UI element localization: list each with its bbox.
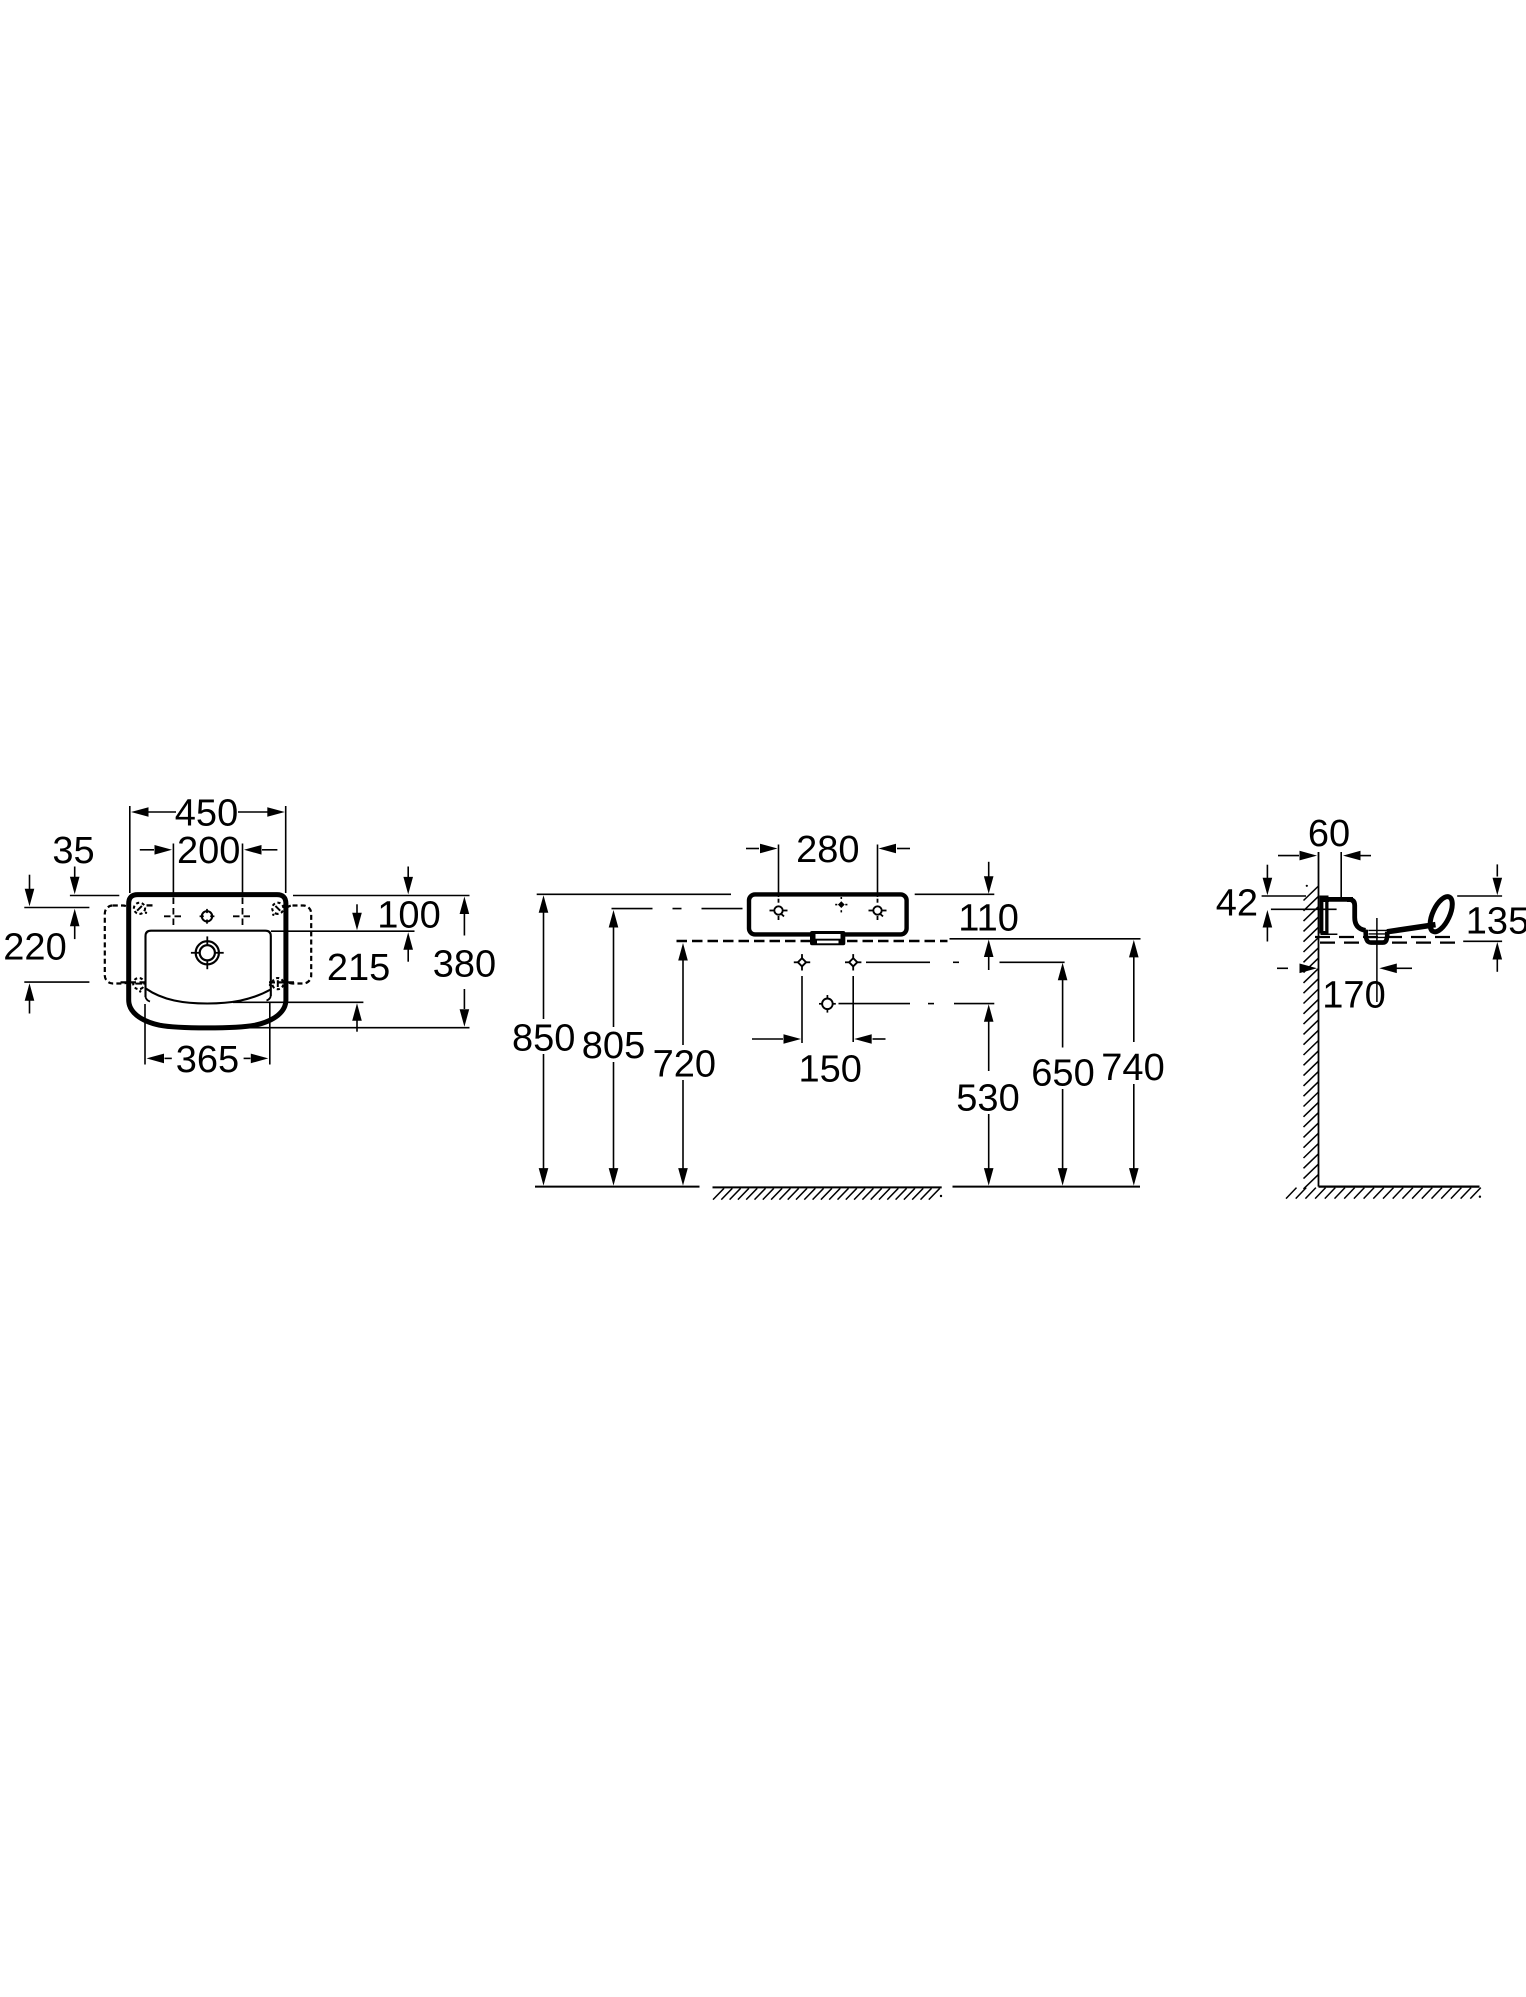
- dim 110 text: [958, 897, 1019, 939]
- right dashed wall-bracket (plan): [285, 906, 312, 984]
- floor hatch: [1286, 1188, 1481, 1199]
- dim 380 upper arrow: [460, 897, 470, 936]
- dim 170 text: [1322, 974, 1385, 1016]
- svg-text:42: 42: [1216, 883, 1258, 925]
- dim 365 left arrow: [147, 1054, 172, 1064]
- svg-text:650: 650: [1031, 1052, 1094, 1094]
- top edge reference line left segment: [70, 895, 119, 897]
- basin bottom arc reference line right: [233, 1001, 363, 1003]
- svg-text:805: 805: [582, 1025, 645, 1067]
- ground line left: [535, 1186, 700, 1188]
- dim 150 text: [798, 1048, 861, 1090]
- dim 200 left extension line: [172, 844, 174, 895]
- svg-text:365: 365: [176, 1039, 239, 1081]
- dim 650 text: [1031, 1052, 1094, 1094]
- dim 850 text: [512, 1018, 575, 1060]
- drain trap (front): [810, 931, 845, 945]
- inner rim top reference line right: [271, 930, 415, 932]
- dim 42 text: [1216, 883, 1258, 925]
- dim 280 right arrow: [879, 844, 911, 854]
- drain centerline (side): [1376, 918, 1378, 1002]
- dim 365 right arrow: [244, 1054, 269, 1064]
- central tap hole plan (double circle): [196, 941, 219, 964]
- dim 450 left extension line: [129, 806, 131, 893]
- dim 365 right extension line: [269, 1002, 271, 1065]
- side profile step down to drain: [1350, 900, 1366, 931]
- fixing point mark top-right: [272, 903, 283, 916]
- dim 650 line lower: [1058, 1089, 1068, 1186]
- dim 850 line upper: [539, 895, 549, 1019]
- fixing holes centerline dash-dot right: [866, 961, 1065, 963]
- tap hole centerline dash-dot (front): [612, 908, 748, 910]
- dim 450 line right + arrow: [238, 807, 285, 817]
- dim 135 lower reference line: [1463, 940, 1502, 942]
- dim 150 right arrow: [854, 1034, 885, 1044]
- dim 380 lower arrow: [460, 989, 470, 1027]
- dim 60 right arrow: [1343, 851, 1371, 861]
- svg-text:110: 110: [958, 897, 1019, 939]
- svg-text:530: 530: [956, 1078, 1019, 1120]
- dim 35 lower arrow (to bracket line): [25, 875, 35, 907]
- dim 135 upper reference line: [1457, 895, 1502, 897]
- fixing point mark bottom-right: [268, 976, 285, 993]
- dim 740 line lower: [1129, 1084, 1139, 1186]
- dim 60 left arrow: [1278, 851, 1317, 861]
- svg-text:380: 380: [433, 944, 496, 986]
- bracket dashes crossing body border bottom-left: [121, 981, 147, 983]
- bracket dash crossing body border top-left: [147, 904, 156, 906]
- dim 365 text: [176, 1039, 239, 1081]
- svg-text:100: 100: [377, 895, 440, 937]
- dim 135 text: [1466, 901, 1526, 943]
- dim 35 upper arrow (to top line): [70, 867, 80, 895]
- fixing point mark bottom-left: [131, 976, 148, 993]
- overflow hole plan (small circle): [202, 911, 212, 921]
- central tap hole cross ticks: [191, 936, 224, 969]
- side profile rim underside slit (white): [1329, 902, 1347, 904]
- svg-text:35: 35: [52, 830, 94, 872]
- dim 200 right arrow: [244, 845, 277, 855]
- side profile top rim: [1320, 897, 1354, 902]
- dim 720 text: [653, 1044, 716, 1086]
- front center tap hole marker (diamond): [835, 897, 847, 912]
- dim 280 text: [796, 829, 859, 871]
- dim 650 line upper: [1058, 963, 1068, 1048]
- svg-text:150: 150: [798, 1048, 861, 1090]
- bracket top reference line (35 lower): [24, 907, 89, 909]
- front left tap hole marker: [770, 899, 788, 923]
- wall line (side view): [1318, 852, 1320, 1187]
- drain outlet hole (front): [819, 995, 836, 1013]
- dim 135 lower arrow: [1493, 942, 1503, 972]
- svg-text:170: 170: [1322, 974, 1385, 1016]
- dim 450 right extension line: [285, 806, 287, 893]
- overflow hole cross ticks: [200, 909, 215, 924]
- dim 35 text: [52, 830, 94, 872]
- dim 42 lower reference line: [1271, 908, 1337, 910]
- dim 220 text: [3, 927, 66, 969]
- dim 170 left arrow: [1277, 964, 1317, 974]
- svg-text:450: 450: [175, 792, 238, 834]
- dim 280 left arrow: [746, 844, 778, 854]
- dim 215 lower arrow: [352, 1003, 362, 1031]
- left optional tap hole (dashed crosshair): [164, 898, 183, 930]
- dim 720 line upper: [678, 943, 688, 1045]
- drain cup thread lines: [1369, 930, 1388, 937]
- side profile bolt bottom line: [1321, 933, 1338, 935]
- svg-text:60: 60: [1308, 813, 1350, 855]
- plan view basin outer body outline: [129, 895, 286, 1028]
- front right tap hole marker: [869, 899, 887, 923]
- plan view inner basin rim (sides and top): [146, 931, 271, 997]
- dim 850 line lower: [539, 1054, 549, 1186]
- wall fixing hole right (front): [845, 954, 861, 970]
- dim 530 line lower: [984, 1114, 994, 1186]
- dim 805 line upper: [609, 910, 619, 1027]
- dim 720 line lower: [678, 1080, 688, 1186]
- wall hatch: [1304, 885, 1319, 1189]
- top edge reference line right segment: [293, 895, 470, 897]
- dim 740 line upper: [1129, 940, 1139, 1042]
- dim 60 right extension line: [1340, 852, 1342, 898]
- dim 220 upper arrow: [70, 909, 80, 939]
- dim 110 upper arrow: [984, 862, 994, 894]
- bracket bottom reference line (220 lower): [24, 981, 89, 983]
- plan view inner basin bottom corner curls: [146, 996, 271, 1002]
- side profile basin underside slope: [1387, 925, 1436, 932]
- svg-text:200: 200: [177, 830, 240, 872]
- svg-text:215: 215: [327, 947, 390, 989]
- dim 150 left arrow: [752, 1034, 801, 1044]
- fixing point mark top-left: [134, 903, 147, 914]
- dim 200 left arrow: [140, 845, 172, 855]
- dim 100 text: [377, 895, 440, 937]
- dim 42 upper reference line: [1262, 895, 1306, 897]
- dim 100 lower arrow: [403, 932, 413, 961]
- side profile bolt slot (white): [1323, 898, 1325, 932]
- dim 280 left extension line: [778, 845, 780, 898]
- svg-text:720: 720: [653, 1044, 716, 1086]
- ground hatch strip: [713, 1187, 943, 1199]
- svg-text:740: 740: [1101, 1047, 1164, 1089]
- plan view inner basin bottom arc: [146, 989, 271, 1004]
- dim 42 upper arrow: [1263, 865, 1273, 896]
- dim 380 text: [433, 944, 496, 986]
- dim 740 text: [1101, 1047, 1164, 1089]
- dim 805 text: [582, 1025, 645, 1067]
- svg-text:280: 280: [796, 829, 859, 871]
- drain hole centerline dash-dot: [839, 1003, 995, 1005]
- dim 60 text: [1308, 813, 1350, 855]
- dim 150 left extension line: [801, 976, 803, 1043]
- svg-text:135: 135: [1466, 901, 1526, 943]
- dim 450 text: [175, 792, 238, 834]
- dim 805 line lower: [609, 1062, 619, 1186]
- side profile front apron (rolled edge): [1426, 893, 1457, 935]
- side profile fixing bolt: [1320, 896, 1329, 934]
- dim 530 line upper: [984, 1004, 994, 1071]
- front view top reference line left: [537, 893, 731, 895]
- svg-text:850: 850: [512, 1018, 575, 1060]
- side profile drain cup: [1366, 930, 1388, 943]
- dim 170 right arrow: [1379, 964, 1412, 974]
- dim 215 upper arrow: [352, 904, 362, 930]
- front view top reference line right: [915, 893, 995, 895]
- svg-text:220: 220: [3, 927, 66, 969]
- dim 365 left extension line: [144, 1004, 146, 1065]
- bracket dashes crossing body border bottom-right: [269, 981, 295, 983]
- dim 200 text: [177, 830, 240, 872]
- dim 135 upper arrow: [1493, 864, 1503, 895]
- hidden rim bottom dashed line (front): [677, 940, 948, 943]
- left dashed wall-bracket (plan): [105, 906, 131, 984]
- wall fixing hole left (front): [794, 954, 810, 970]
- dim 150 right extension line: [852, 976, 854, 1042]
- right optional tap hole (dashed crosshair): [233, 898, 252, 930]
- floor line (side view): [1319, 1185, 1480, 1187]
- dim 220 lower arrow: [25, 983, 35, 1013]
- front basin outline: [749, 894, 907, 934]
- rim bottom reference line right: [950, 938, 1141, 940]
- dim 450 line left + arrow: [131, 807, 176, 817]
- dim 110 lower arrow: [984, 940, 994, 971]
- dim 100 upper arrow: [403, 867, 413, 895]
- dim 42 lower arrow: [1263, 910, 1273, 942]
- hidden dashed line lower (side): [1320, 941, 1460, 943]
- outer bottom reference line right: [245, 1027, 470, 1029]
- ground line right: [953, 1186, 1141, 1188]
- dim 280 right extension line: [877, 845, 879, 898]
- dim 215 text: [327, 947, 390, 989]
- dim 530 text: [956, 1078, 1019, 1120]
- hidden dashed line upper (side): [1315, 936, 1453, 938]
- dim 200 right extension line: [242, 844, 244, 895]
